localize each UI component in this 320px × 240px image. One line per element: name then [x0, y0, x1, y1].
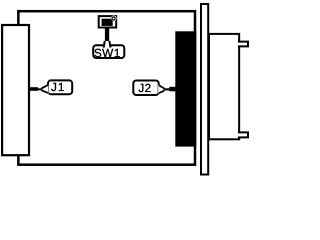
switch SW1 icon button circle: [111, 15, 117, 21]
label J2 pointer tail: [158, 85, 164, 94]
label SW1 pointer tail: [104, 41, 111, 48]
label box SW1: [93, 45, 124, 58]
label J1 pointer bar: [30, 87, 38, 91]
connector J2 body (black): [175, 31, 196, 146]
svg-text:SW1: SW1: [94, 46, 121, 60]
label J1 pointer tail: [42, 85, 49, 94]
label box J1: [48, 80, 72, 94]
switch SW1 icon black pad: [102, 19, 113, 26]
label J2 pointer bar: [164, 88, 171, 90]
svg-text:J1: J1: [51, 80, 65, 94]
circuit board outline: [18, 11, 195, 165]
bracket bottom screw tab: [238, 132, 248, 137]
switch SW1 icon box: [99, 16, 117, 27]
connector J1 body: [2, 25, 29, 155]
mounting bracket bar: [201, 4, 208, 175]
svg-text:J2: J2: [138, 81, 151, 95]
label box J2: [133, 81, 158, 96]
bracket connector housing: [209, 34, 239, 139]
bracket top screw tab: [238, 42, 248, 47]
switch SW1 icon stem: [105, 28, 109, 42]
